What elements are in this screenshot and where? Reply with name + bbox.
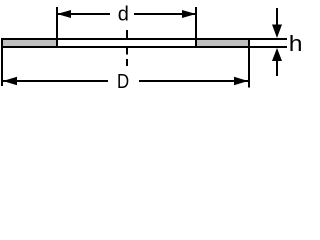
washer top edge line (extends right as h extension) [1, 38, 287, 40]
d dimension line left segment [57, 13, 110, 15]
D arrowhead right [234, 77, 248, 85]
washer bottom edge line (extends right as h extension) [1, 46, 287, 48]
washer left edge and D extension line [1, 38, 3, 86]
d dimension line right segment [134, 13, 196, 15]
svg-text:D: D [117, 70, 129, 93]
svg-text:h: h [289, 32, 303, 57]
D dimension line right segment [139, 80, 249, 82]
d extension line left [56, 7, 58, 48]
d extension line right [195, 7, 197, 48]
h arrow bottom tail [276, 60, 278, 76]
centerline dash 1 below washer [126, 48, 128, 55]
D arrowhead left [3, 77, 17, 85]
h arrowhead bottom (pointing up) [272, 48, 282, 61]
centerline segment above washer [126, 30, 128, 38]
washer right edge and D extension line [248, 38, 250, 88]
h arrowhead top (pointing down) [272, 25, 282, 39]
h arrow top tail [276, 8, 278, 25]
svg-text:d: d [118, 3, 129, 25]
d arrowhead left [57, 10, 71, 18]
centerline dash 2 below washer [126, 59, 128, 66]
d arrowhead right [182, 10, 196, 18]
washer left section fill [3, 40, 56, 46]
washer right section fill [197, 40, 248, 46]
D dimension line left segment [3, 80, 108, 82]
